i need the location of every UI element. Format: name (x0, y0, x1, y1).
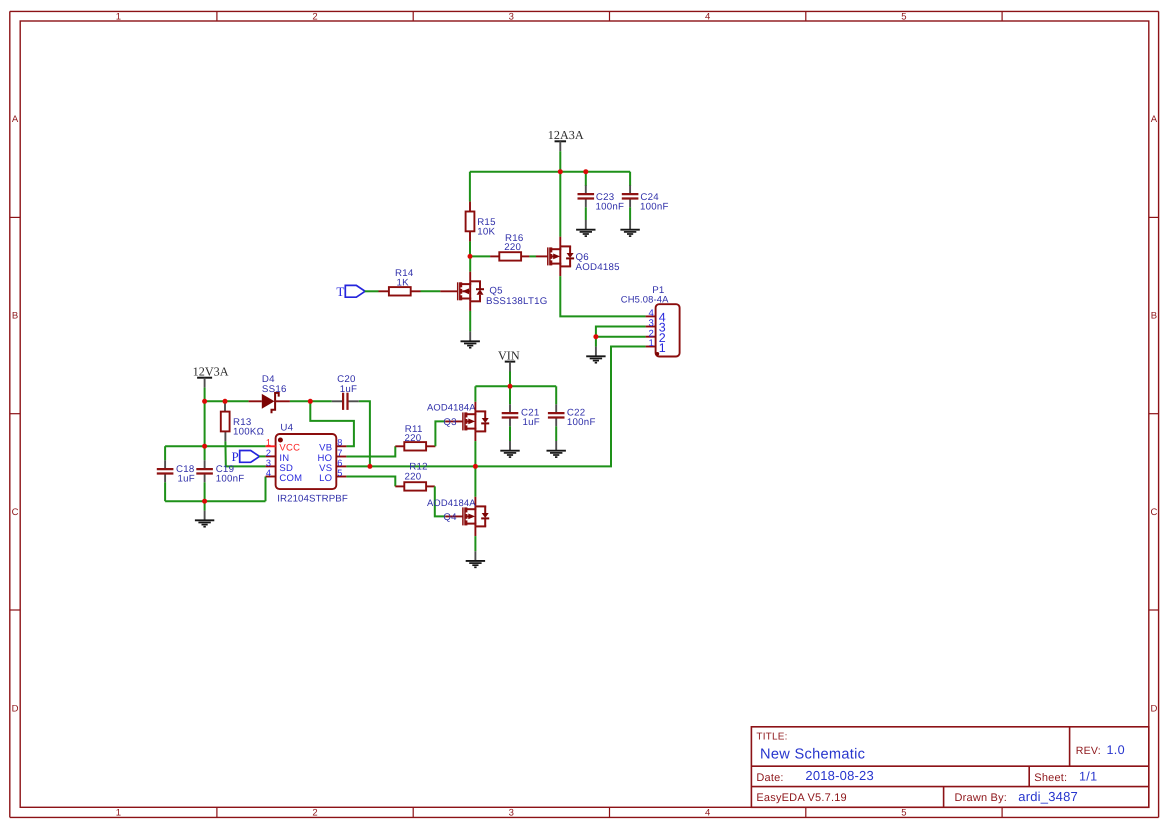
wire VIN to Q3 drain (474, 386, 476, 402)
node junction R15/R16/Q5 (468, 254, 473, 259)
svg-text:BSS138LT1G: BSS138LT1G (486, 296, 548, 307)
node junction VS at C20 (367, 464, 372, 469)
resistor R13 (221, 412, 230, 432)
ic U4 body (276, 434, 337, 489)
transistor Q4 bottom stub (474, 526, 476, 536)
ic U4 pin 1 stub (266, 445, 276, 447)
wire R16 to Q6 gate (529, 255, 536, 257)
wire R12 to Q4 gate (435, 486, 446, 516)
svg-text:2: 2 (266, 448, 271, 458)
svg-text:T: T (336, 284, 344, 299)
transistor Q5 BSS138LT1G (457, 282, 459, 300)
connector P1 pin 2 stub (646, 336, 656, 338)
wire 12V to D4 (225, 400, 249, 402)
svg-text:12A3A: 12A3A (548, 128, 584, 142)
wire R13 bottom to SD (225, 441, 265, 466)
svg-text:SS16: SS16 (262, 384, 287, 395)
capacitor C22 (555, 404, 557, 413)
connector P1 pin 1 stub (646, 346, 656, 348)
capacitor C21 (509, 404, 511, 413)
wire LO to R12 (346, 477, 395, 487)
resistor R14 pins (379, 290, 389, 292)
wire D4 to node (290, 400, 310, 402)
wire C23 drop (585, 172, 587, 186)
svg-text:AOD4184A: AOD4184A (427, 497, 476, 508)
svg-text:100KΩ: 100KΩ (233, 427, 264, 438)
svg-text:AOD4184A: AOD4184A (427, 402, 476, 413)
ruler tick marks and coordinate labels (216, 11, 218, 21)
svg-text:New Schematic: New Schematic (760, 746, 865, 762)
node junction VCC/C19 (202, 444, 207, 449)
node junction 12V at C19 column (202, 399, 207, 404)
svg-text:2: 2 (312, 808, 317, 819)
transistor Q5 gate pin (440, 290, 457, 292)
ground below C24 (629, 220, 631, 230)
capacitor C24 (629, 185, 631, 194)
net flag VIN (505, 361, 516, 363)
transistor Q4 gate pin (445, 515, 463, 517)
svg-text:1/1: 1/1 (1079, 769, 1097, 783)
svg-text:Q5: Q5 (489, 285, 502, 296)
wire R14 to Q5 gate (421, 290, 441, 292)
wire C24 drop (629, 172, 631, 186)
resistor R15 pins (469, 202, 471, 212)
transistor Q3 top stub (474, 402, 476, 412)
svg-text:P: P (231, 449, 238, 464)
node junction VIN (508, 384, 513, 389)
wire C21 drop (509, 386, 511, 404)
port T (345, 285, 365, 297)
svg-text:1.0: 1.0 (1107, 743, 1125, 757)
svg-text:Q3: Q3 (443, 417, 456, 428)
svg-text:Date:: Date: (756, 772, 783, 784)
transistor Q6 top stub (559, 237, 561, 247)
transistor Q5 top stub (469, 272, 471, 282)
svg-text:1: 1 (116, 12, 121, 23)
svg-text:D: D (12, 704, 19, 715)
svg-text:1: 1 (266, 437, 271, 447)
resistor R14 (389, 287, 411, 295)
wire C23 to ground (585, 207, 587, 220)
connector P1 pin1 marker dot (656, 352, 660, 356)
svg-text:A: A (1151, 114, 1158, 125)
svg-text:100nF: 100nF (640, 202, 669, 213)
svg-text:IR2104STRPBF: IR2104STRPBF (277, 493, 348, 504)
node junction D4/C20/VB (308, 399, 313, 404)
svg-text:1: 1 (659, 341, 666, 355)
ic U4 pin 7 stub (336, 456, 346, 458)
svg-text:1uF: 1uF (523, 417, 540, 428)
wire bus to R15 (469, 172, 471, 202)
ground below Q5 (469, 331, 471, 341)
node junction VS at Q3/Q4 (473, 464, 478, 469)
svg-text:4: 4 (705, 12, 710, 23)
svg-text:D: D (1150, 704, 1157, 715)
ground below C22 (555, 441, 557, 451)
svg-text:1uF: 1uF (340, 384, 357, 395)
wire bottom rail riser to COM (265, 477, 267, 502)
svg-text:2018-08-23: 2018-08-23 (805, 768, 874, 783)
svg-text:5: 5 (337, 468, 342, 478)
capacitor C23 (585, 185, 587, 194)
svg-text:EasyEDA V5.7.19: EasyEDA V5.7.19 (756, 792, 846, 804)
wire R15 to node (469, 241, 471, 256)
wire Q3 source to Q4 drain (474, 441, 476, 497)
svg-text:220: 220 (405, 471, 422, 482)
svg-text:A: A (12, 114, 19, 125)
svg-text:C: C (1150, 507, 1157, 518)
resistor R12 (404, 482, 426, 490)
svg-text:U4: U4 (280, 423, 293, 434)
wire C22 drop (555, 386, 557, 404)
svg-text:100nF: 100nF (567, 417, 596, 428)
wire C18 drop (164, 446, 166, 460)
transistor Q5 bottom stub (469, 301, 471, 311)
wire VIN stub (509, 372, 511, 387)
wire C19 to bottom rail (204, 482, 206, 501)
svg-text:100nF: 100nF (216, 474, 245, 485)
wire C21 to ground (509, 426, 511, 441)
wire VS net (346, 347, 645, 467)
svg-text:B: B (1151, 311, 1157, 322)
wire P1 pin3 net (596, 327, 646, 337)
wire C18 to bottom rail (164, 482, 166, 501)
ic U4 pin 8 stub (336, 445, 346, 447)
ic U4 pin 4 stub (266, 476, 276, 478)
wire T to R14 (365, 290, 379, 292)
wire Q5 drain up (469, 256, 471, 271)
port P (240, 451, 260, 463)
svg-text:3: 3 (266, 458, 271, 468)
svg-text:100nF: 100nF (596, 202, 625, 213)
svg-text:1: 1 (116, 808, 121, 819)
wire C22 to ground (555, 426, 557, 441)
resistor R15 (466, 212, 475, 232)
wire 12A3A horizontal bus (470, 171, 630, 173)
wire pin2 net to ground (595, 337, 597, 347)
transistor Q3 gate pin (445, 420, 463, 422)
svg-text:2: 2 (312, 12, 317, 23)
svg-text:7: 7 (337, 448, 342, 458)
ic U4 pin 3 stub (266, 465, 276, 467)
wire VIN bus (475, 385, 556, 387)
svg-text:1K: 1K (397, 277, 410, 288)
svg-text:6: 6 (337, 458, 342, 468)
capacitor C19 (204, 460, 206, 469)
svg-text:ardi_3487: ardi_3487 (1018, 789, 1078, 804)
svg-text:5: 5 (901, 12, 906, 23)
svg-text:4: 4 (266, 468, 271, 478)
resistor R16 (499, 252, 521, 260)
connector P1 pin 4 stub (646, 315, 656, 317)
transistor Q6 AOD4185 (547, 247, 549, 265)
svg-text:VIN: VIN (498, 348, 520, 362)
svg-text:LO: LO (319, 473, 332, 484)
svg-text:REV:: REV: (1076, 745, 1101, 757)
wire VB loop (310, 401, 354, 446)
svg-text:220: 220 (405, 433, 422, 444)
svg-text:B: B (12, 311, 18, 322)
wire HO to R11 (346, 446, 395, 456)
ic U4 pin1 dot (278, 438, 283, 443)
resistor R12 pins (395, 485, 404, 487)
ground below C23 (585, 220, 587, 230)
svg-text:COM: COM (279, 473, 302, 484)
wire C24 to ground (629, 207, 631, 220)
ground below P1 nets (595, 347, 597, 357)
node junction bottom rail (202, 499, 207, 504)
wire Q4 source down (474, 536, 476, 551)
svg-text:AOD4185: AOD4185 (576, 262, 620, 273)
wire C19 drop (204, 446, 206, 460)
diode D4 cathode pin (275, 400, 290, 402)
resistor R11 (404, 442, 426, 450)
node junction pin2/pin3 net (593, 334, 598, 339)
node junction bus at C23 (583, 169, 588, 174)
svg-text:220: 220 (504, 242, 521, 253)
svg-text:Q4: Q4 (443, 512, 457, 523)
node junction at R13 top (223, 399, 228, 404)
wire 12V down to VCC line (204, 401, 206, 446)
wire rail to ground (204, 501, 206, 510)
ground below C19 (204, 511, 206, 521)
net flag 12V3A (197, 377, 212, 379)
capacitor C18 (164, 460, 166, 469)
capacitor C20 (332, 400, 343, 402)
resistor R13 pins (224, 401, 226, 411)
wire R11 to Q3 gate (435, 421, 445, 446)
svg-text:3: 3 (509, 808, 514, 819)
transistor Q6 bottom stub (559, 266, 561, 276)
diode D4 anode pin (249, 400, 262, 402)
sheet border outer frame (10, 10, 1159, 12)
transistor Q3 bottom stub (474, 431, 476, 441)
wire Q6 to P1 pin4 (560, 276, 645, 316)
connector P1 body (656, 304, 680, 356)
ic U4 pin 2 stub (266, 455, 276, 457)
resistor R16 pins (490, 255, 500, 257)
net flag 12A3A (555, 140, 567, 142)
svg-text:TITLE:: TITLE: (756, 732, 787, 743)
svg-text:8: 8 (337, 437, 342, 447)
connector P1 pin 3 stub (646, 326, 656, 328)
svg-text:10K: 10K (477, 226, 495, 237)
svg-text:5: 5 (901, 808, 906, 819)
ground below C21 (509, 441, 511, 451)
svg-text:12V3A: 12V3A (193, 365, 229, 379)
resistor R11 pins (395, 445, 404, 447)
wire 12A3A stub (559, 151, 561, 172)
diode D4 SS16 (262, 394, 275, 409)
svg-text:3: 3 (509, 12, 514, 23)
wire 12V3A stub (204, 388, 206, 402)
wire node to C20 (310, 400, 332, 402)
wire P to IN (259, 455, 266, 457)
wire C20 to VS column (359, 401, 370, 466)
wire Q5 source down (469, 311, 471, 332)
transistor Q3 AOD4184A (462, 412, 464, 430)
wire node to R16 (470, 255, 490, 257)
ground below Q4 (474, 551, 476, 561)
ic U4 pin 5 stub (336, 476, 346, 478)
wire bottom rail (165, 500, 265, 502)
title block grid (751, 727, 1148, 808)
svg-text:Sheet:: Sheet: (1034, 772, 1067, 784)
wire 12V to R13 (205, 400, 225, 402)
wire P1 pin2 net (596, 336, 646, 338)
svg-text:Drawn By:: Drawn By: (955, 792, 1008, 804)
svg-text:4: 4 (705, 808, 710, 819)
svg-text:CH5.08-4A: CH5.08-4A (621, 294, 669, 305)
svg-text:1: 1 (648, 338, 653, 349)
ic U4 pin 6 stub (336, 465, 346, 467)
transistor Q4 top stub (474, 497, 476, 507)
transistor Q6 gate pin (536, 255, 548, 257)
transistor Q4 AOD4184A (462, 507, 464, 525)
wire Q6 drain up to bus (559, 172, 561, 237)
wire VCC line (165, 445, 266, 447)
node junction bus-left at Q6 drain column (558, 169, 563, 174)
svg-text:1uF: 1uF (178, 474, 195, 485)
svg-text:C: C (12, 507, 19, 518)
